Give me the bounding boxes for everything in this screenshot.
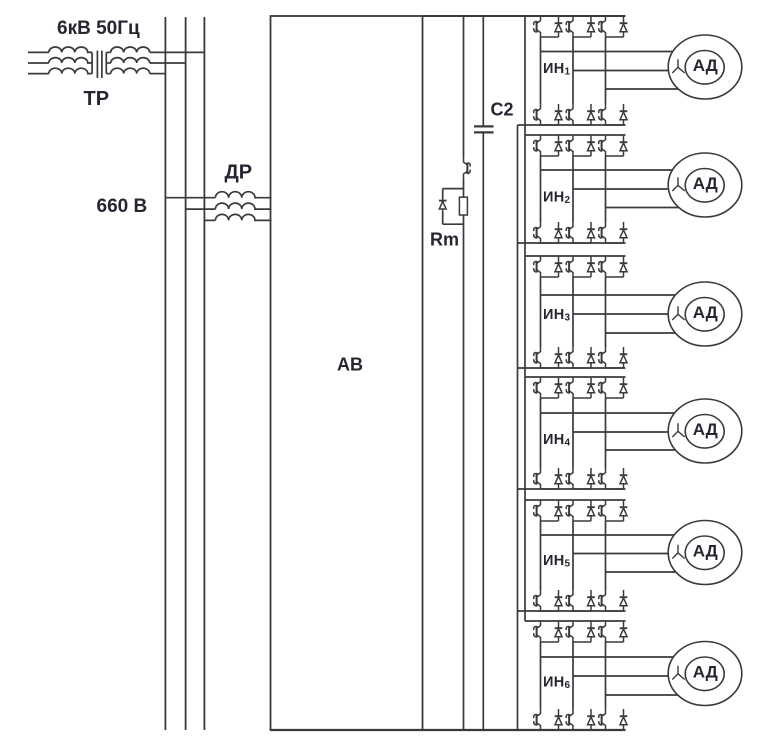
IGBT/diode cell ИН6 top leg 2	[566, 621, 595, 642]
wire ИН1 bottom rail	[518, 124, 626, 126]
wire ИН1 leg 2	[572, 37, 574, 104]
transformer ТР secondary star point	[105, 52, 107, 73]
wire ИН3 phase output 2 to motor	[573, 313, 668, 315]
transformer ТР primary winding phase B	[28, 62, 49, 64]
IGBT/diode cell ИН3 bottom leg 1	[534, 347, 563, 368]
IGBT/diode cell ИН6 bottom leg 2	[566, 709, 595, 730]
wire ИН6 phase output 1 to motor	[541, 656, 674, 658]
IGBT/diode cell ИН3 top leg 3	[599, 256, 628, 277]
active rectifier АВ box	[271, 16, 423, 730]
svg-text:ТР: ТР	[84, 88, 110, 110]
IGBT/diode cell ИН3 bottom leg 2	[566, 347, 595, 368]
IGBT/diode cell ИН1 bottom leg 1	[534, 104, 563, 125]
IGBT/diode cell ИН5 top leg 3	[599, 500, 628, 521]
motor АД 6	[668, 642, 742, 706]
wire secondary phase A to bus 3	[150, 51, 205, 53]
IGBT/diode cell ИН5 bottom leg 3	[599, 590, 628, 611]
transformer ТР core	[97, 51, 102, 78]
transformer ТР secondary winding phase C	[106, 73, 110, 75]
transformer ТР secondary winding phase B	[106, 62, 110, 64]
svg-text:АВ: АВ	[337, 354, 363, 374]
wire ИН5 top rail	[525, 499, 626, 501]
transistor brake chopper	[464, 158, 471, 179]
resistor Rm	[459, 197, 467, 215]
wire ИН2 phase output 2 to motor	[573, 188, 669, 190]
wire ИН5 phase output 1 to motor	[541, 534, 675, 536]
IGBT/diode cell ИН6 top leg 1	[534, 621, 563, 642]
bus 2 (660 V phase B)	[185, 17, 187, 730]
IGBT/diode cell ИН2 bottom leg 2	[566, 222, 595, 243]
diode across Rm	[442, 189, 444, 199]
IGBT/diode cell ИН4 bottom leg 1	[534, 468, 563, 489]
wire ИН1 leg 1	[540, 37, 542, 104]
wire brake branch upper	[463, 16, 465, 158]
wire ИН5 leg 1	[540, 521, 542, 590]
wire ИН2 phase output 1 to motor	[541, 169, 673, 171]
svg-text:6кВ 50Гц: 6кВ 50Гц	[57, 18, 140, 39]
wire ИН4 top rail	[525, 376, 626, 378]
svg-text:ИН1: ИН1	[543, 61, 571, 78]
wire ИН4 bottom rail	[518, 488, 626, 490]
svg-text:ИН4: ИН4	[543, 432, 571, 449]
svg-text:ДР: ДР	[225, 162, 253, 184]
IGBT/diode cell ИН4 top leg 2	[566, 377, 595, 398]
wire ИН6 leg 2	[572, 642, 574, 709]
transformer ТР secondary winding phase A	[106, 51, 110, 53]
wire ИН1 phase output 2 to motor	[573, 70, 668, 72]
wire ИН2 bottom rail	[518, 242, 626, 244]
motor АД 3	[668, 282, 742, 346]
bus 1 (660 V phase C)	[164, 17, 166, 730]
IGBT/diode cell ИН3 top leg 1	[534, 256, 563, 277]
reactor ДР phase 1 + wire bus1 to АВ	[165, 197, 215, 199]
transformer ТР primary winding phase A	[28, 51, 49, 53]
wire ИН6 phase output 3 to motor	[606, 694, 678, 696]
wire ИН3 phase output 3 to motor	[606, 332, 676, 334]
wire ИН6 phase output 2 to motor	[573, 675, 668, 677]
wire chopper to Rm network	[443, 179, 464, 198]
wire ИН1 phase output 1 to motor	[541, 51, 673, 53]
wire ИН4 phase output 1 to motor	[541, 412, 675, 414]
wire ИН6 leg 3	[605, 642, 607, 709]
motor АД 4	[668, 399, 742, 463]
IGBT/diode cell ИН6 top leg 3	[599, 621, 628, 642]
wire ИН2 leg 3	[605, 156, 607, 222]
svg-text:ИН6: ИН6	[543, 675, 571, 692]
wire ИН1 phase output 3 to motor	[606, 88, 679, 90]
svg-text:ИН2: ИН2	[543, 190, 571, 207]
IGBT/diode cell ИН6 bottom leg 1	[534, 709, 563, 730]
wire ИН3 leg 2	[572, 277, 574, 347]
wire ИН2 leg 2	[572, 156, 574, 222]
wire ИН2 top rail	[525, 134, 626, 136]
IGBT/diode cell ИН6 bottom leg 3	[599, 709, 628, 730]
IGBT/diode cell ИН5 top leg 1	[534, 500, 563, 521]
IGBT/diode cell ИН5 top leg 2	[566, 500, 595, 521]
wire ИН1 leg 3	[605, 37, 607, 104]
wire ИН4 phase output 3 to motor	[606, 449, 676, 451]
IGBT/diode cell ИН1 top leg 3	[599, 16, 628, 37]
IGBT/diode cell ИН2 top leg 1	[534, 135, 563, 156]
wire ИН5 leg 2	[572, 521, 574, 590]
reactor ДР phase 3 + wire bus3 to АВ	[204, 219, 215, 221]
wire Rm network to DC- rail	[443, 215, 464, 730]
wire ИН3 leg 1	[540, 277, 542, 347]
IGBT/diode cell ИН2 bottom leg 1	[534, 222, 563, 243]
IGBT/diode cell ИН1 bottom leg 3	[599, 104, 628, 125]
wire ИН2 leg 1	[540, 156, 542, 222]
svg-text:Rm: Rm	[430, 230, 459, 250]
transformer ТР primary star point	[91, 52, 93, 73]
wire ИН4 leg 3	[605, 398, 607, 468]
wire ИН5 phase output 2 to motor	[573, 553, 668, 555]
svg-text:ИН5: ИН5	[543, 553, 571, 570]
wire ИН5 leg 3	[605, 521, 607, 590]
wire C2 branch lower	[482, 132, 484, 730]
IGBT/diode cell ИН4 top leg 3	[599, 377, 628, 398]
IGBT/diode cell ИН5 bottom leg 2	[566, 590, 595, 611]
svg-text:660 В: 660 В	[97, 196, 148, 217]
IGBT/diode cell ИН4 bottom leg 3	[599, 468, 628, 489]
svg-text:С2: С2	[491, 100, 514, 120]
wire C2 branch upper	[482, 16, 484, 126]
wire secondary phase B to bus 2	[150, 62, 186, 64]
wire ИН5 bottom rail	[518, 610, 626, 612]
wire ИН4 phase output 2 to motor	[573, 431, 668, 433]
motor АД 5	[668, 521, 742, 585]
capacitor C2	[474, 126, 494, 132]
IGBT/diode cell ИН1 bottom leg 2	[566, 104, 595, 125]
IGBT/diode cell ИН2 bottom leg 3	[599, 222, 628, 243]
wire secondary phase C to bus 1	[150, 73, 166, 75]
wire DC- bottom rail	[271, 729, 626, 731]
wire DC- collection line	[517, 125, 519, 730]
motor АД 2	[668, 153, 742, 217]
bus 3 (660 V phase A)	[203, 17, 205, 730]
wire ИН6 leg 1	[540, 642, 542, 709]
wire ИН3 bottom rail	[518, 367, 626, 369]
IGBT/diode cell ИН4 bottom leg 2	[566, 468, 595, 489]
wire ИН3 leg 3	[605, 277, 607, 347]
motor АД 1	[668, 35, 742, 99]
IGBT/diode cell ИН5 bottom leg 1	[534, 590, 563, 611]
reactor ДР phase 2 + wire bus2 to АВ	[186, 208, 216, 210]
IGBT/diode cell ИН2 top leg 2	[566, 135, 595, 156]
wire ИН3 phase output 1 to motor	[541, 294, 676, 296]
IGBT/diode cell ИН1 top leg 2	[566, 16, 595, 37]
IGBT/diode cell ИН3 bottom leg 3	[599, 347, 628, 368]
svg-text:ИН3: ИН3	[543, 307, 571, 324]
wire ИН2 phase output 3 to motor	[606, 207, 679, 209]
wire ИН5 phase output 3 to motor	[606, 571, 676, 573]
transformer ТР primary winding phase C	[28, 73, 49, 75]
wire ИН3 top rail	[525, 255, 626, 257]
wire ИН4 leg 1	[540, 398, 542, 468]
IGBT/diode cell ИН1 top leg 1	[534, 16, 563, 37]
wire ИН4 leg 2	[572, 398, 574, 468]
IGBT/diode cell ИН3 top leg 2	[566, 256, 595, 277]
IGBT/diode cell ИН2 top leg 3	[599, 135, 628, 156]
wire ИН6 top rail	[525, 620, 626, 622]
wire DC+ top rail	[423, 15, 626, 17]
wire DC+ distribution line	[524, 16, 526, 621]
IGBT/diode cell ИН4 top leg 1	[534, 377, 563, 398]
